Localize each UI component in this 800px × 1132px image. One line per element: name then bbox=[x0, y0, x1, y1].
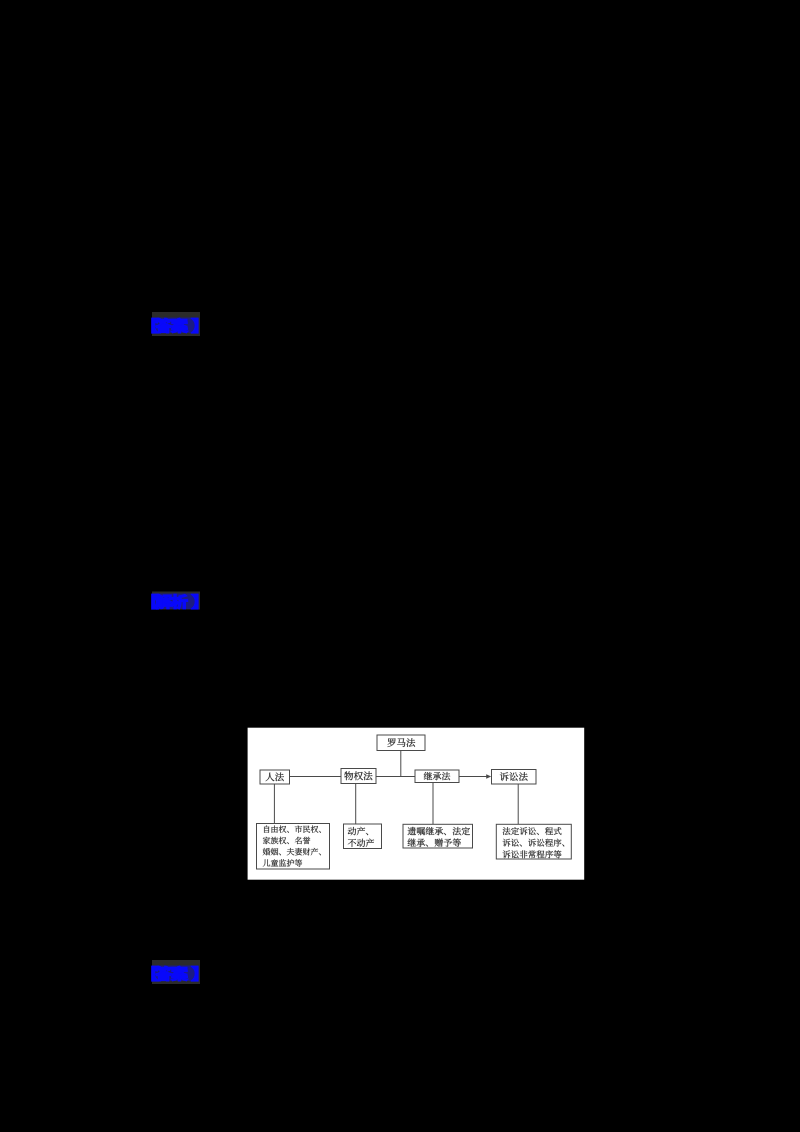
node procedure-law bbox=[492, 770, 537, 785]
node roman-law bbox=[377, 735, 425, 751]
label-1 answer blue label text bbox=[152, 318, 199, 334]
box procedure-kinds bbox=[496, 824, 571, 859]
label-3 answer highlight shading bbox=[152, 960, 200, 984]
diagram white background bbox=[248, 728, 585, 880]
node inherit-law bbox=[415, 770, 459, 783]
arrow inherit-law to procedure-law bbox=[459, 774, 491, 779]
box inheritance-kinds bbox=[403, 824, 473, 848]
label-2 analysis blue label text bbox=[152, 594, 199, 610]
label-1 answer highlight shading bbox=[152, 312, 200, 336]
wire procedure-law drop bbox=[517, 784, 519, 824]
wire property-law drop bbox=[355, 784, 357, 825]
wire person-law drop bbox=[273, 784, 275, 824]
wire person-law to property-law bbox=[290, 776, 342, 778]
box rights-of-persons bbox=[257, 824, 330, 870]
wire roman-law drop to junction bbox=[400, 751, 402, 777]
node person-law bbox=[260, 770, 290, 784]
box movable-immovable bbox=[344, 824, 382, 849]
wire property-law to inherit-law bbox=[376, 776, 415, 778]
label-3 answer blue label text bbox=[152, 966, 199, 982]
wire inherit-law drop bbox=[432, 783, 434, 825]
node property-law bbox=[341, 769, 376, 784]
label-2 analysis highlight shading bbox=[152, 592, 200, 610]
